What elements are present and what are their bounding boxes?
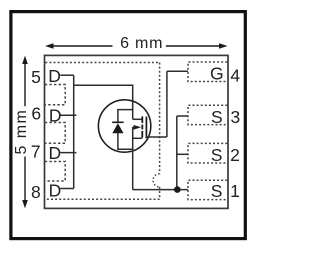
left pad C (between pins 7-8, dashed)	[45, 162, 65, 182]
svg-text:6 mm: 6 mm	[120, 35, 162, 52]
body diode branch top	[118, 110, 133, 123]
pin 4 pad G (dotted)	[188, 62, 227, 82]
svg-text:3: 3	[231, 107, 241, 127]
svg-text:8: 8	[31, 182, 41, 202]
MOSFET source vertical	[132, 127, 134, 190]
svg-text:S: S	[211, 145, 223, 165]
wire: pin4 G stub	[167, 70, 188, 72]
wire: pin6 D stub	[60, 114, 76, 116]
wire: drain line to MOSFET	[74, 85, 133, 119]
junction dot (source node)	[174, 186, 181, 193]
decorative outer frame	[11, 12, 245, 239]
dimension arrow 5 mm (left)	[22, 56, 28, 209]
svg-text:4: 4	[230, 65, 240, 85]
left pad A (between pins 5-6, dashed)	[45, 85, 65, 105]
svg-text:2: 2	[230, 145, 240, 165]
MOSFET gate bar	[145, 117, 147, 139]
wire: pin7 D stub	[60, 152, 76, 154]
pin 2 pad S (dotted)	[188, 143, 227, 163]
MOSFET body arrow	[134, 125, 142, 130]
dimension arrow 6 mm (top)	[45, 43, 228, 49]
wire: gate lead	[146, 136, 167, 138]
MOSFET channel segments	[141, 116, 143, 137]
die pad outline (dotted)	[45, 63, 159, 200]
MOSFET Q1 (circle)	[98, 100, 150, 152]
left pad B (between pins 6-7, dashed)	[45, 123, 65, 144]
wire: pin5 D stub	[60, 74, 73, 76]
wire: drain bus vertical	[73, 75, 75, 188]
svg-text:6: 6	[31, 104, 41, 124]
svg-text:D: D	[49, 180, 62, 200]
svg-text:S: S	[211, 181, 223, 201]
wire: gate riser	[166, 71, 168, 137]
svg-text:G: G	[210, 64, 224, 84]
svg-text:1: 1	[230, 181, 240, 201]
svg-text:S: S	[211, 107, 223, 127]
wire: pin2 S stub	[177, 153, 188, 155]
svg-text:5 mm: 5 mm	[13, 110, 30, 154]
wire: source line to pin1	[133, 189, 188, 191]
pin 3 pad S (dotted)	[188, 105, 227, 124]
wire: pin3 S stub	[177, 115, 188, 117]
wire: source bus vertical	[176, 116, 178, 190]
svg-text:D: D	[49, 105, 62, 125]
body diode branch bottom	[118, 133, 133, 149]
svg-text:7: 7	[31, 142, 41, 162]
MOSFET drain contact	[133, 118, 143, 120]
wire: pin8 D stub	[60, 188, 73, 190]
svg-text:D: D	[48, 66, 61, 86]
MOSFET source contact	[133, 137, 143, 139]
svg-text:5: 5	[31, 67, 41, 87]
package outline	[45, 55, 229, 208]
body diode cathode bar	[112, 121, 123, 123]
body diode triangle	[112, 123, 123, 133]
pin 1 pad S (dotted)	[188, 180, 227, 199]
svg-text:D: D	[48, 143, 61, 163]
